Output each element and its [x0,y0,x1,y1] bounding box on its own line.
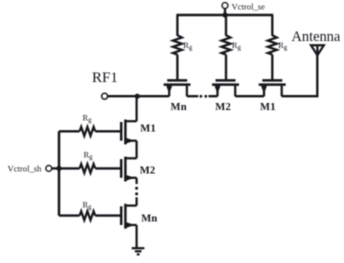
svg-text:Rg: Rg [83,113,93,124]
svg-text:Rg: Rg [83,200,93,211]
wire RF1 to Mn [107,95,169,97]
svg-text:Mn: Mn [141,213,157,224]
resistor Rg (series M1 gate) [268,35,277,54]
node RF1 port circle [102,93,108,99]
wire M1 source to M2 drain [135,141,137,159]
transistor M1 (series) [259,80,286,96]
dots ellipsis series [200,95,203,98]
wire M2 gate lower [225,55,227,80]
wire M1 gate lower [271,55,273,80]
node Vctrol_se port circle [222,3,228,9]
svg-text:Vctrol_se: Vctrol_se [232,1,266,11]
wire left bus [58,131,61,215]
svg-text:M2: M2 [215,102,231,113]
wire shunt M2 gate left [59,167,80,169]
ground [132,248,145,254]
wire to M1 gate [95,130,120,132]
resistor Rg (shunt M2 gate) [80,164,96,173]
wire Mn source to ground [135,225,137,248]
wire M1 drain to RF1 [135,96,137,121]
transistor Mn (shunt) [121,204,136,229]
transistor M2 (shunt) [121,157,136,182]
antenna symbol [311,45,324,56]
svg-text:RF1: RF1 [92,70,118,86]
transistor Mn (series) [164,80,191,96]
svg-text:Rg: Rg [232,41,242,52]
junction left bus [56,166,61,171]
node Vctrol_sh port circle [46,166,52,172]
resistor Rg (shunt M1 gate) [80,127,96,136]
wire to M2 drain [209,95,218,97]
resistor Rg (shunt Mn gate) [80,211,96,220]
junction RF1 shunt tap [135,94,140,99]
wire to Mn drain [135,197,137,205]
wire Vctrol_sh stub [52,167,59,169]
svg-text:Rg: Rg [183,41,193,52]
wire shunt Mn gate left [59,214,80,216]
resistor Rg (series Mn gate) [173,35,182,54]
svg-text:M1: M1 [140,123,156,134]
wire to Mn gate [95,214,120,216]
wire to M2 gate [95,167,120,169]
wire branch M2 gate top [225,15,227,36]
wire M2 source stub [135,178,137,184]
svg-text:Mn: Mn [171,102,187,113]
wire top bus [176,14,273,17]
svg-text:Rg: Rg [84,151,94,162]
transistor M1 (shunt) [121,120,136,145]
svg-text:M2: M2 [140,166,156,177]
wire Vctrol_se stub [224,8,226,15]
junction top bus [222,12,227,17]
wire Mn gate lower [176,55,178,80]
dots ellipsis shunt [135,187,138,190]
svg-text:Antenna: Antenna [292,29,341,45]
wire branch M1 gate top [271,15,273,36]
wire branch Mn gate top [176,15,178,36]
wire shunt M1 gate left [59,130,80,132]
svg-text:M1: M1 [260,102,276,113]
resistor Rg (series M2 gate) [222,35,231,54]
wire M1 to antenna corner [282,55,318,97]
wire Mn source stub [187,95,198,97]
transistor M2 (series) [212,80,239,96]
wire M2 to M1 [235,95,264,97]
svg-text:Rg: Rg [278,41,288,52]
svg-text:Vctrol_sh: Vctrol_sh [8,164,43,174]
